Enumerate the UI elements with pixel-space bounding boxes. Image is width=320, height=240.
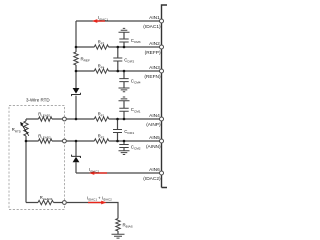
resistor RRTD (12, 119, 29, 141)
current arrow IIDAC1+IIDAC2 (87, 195, 112, 204)
capacitor CCM4 (119, 71, 140, 88)
wire top IDAC1 trace (76, 20, 160, 22)
resistor RREF (74, 52, 90, 65)
capacitor CDIF1 (113, 119, 134, 141)
resistor RBIAS (116, 219, 133, 235)
svg-text:AIN1: AIN1 (149, 15, 160, 21)
junction dots (25, 46, 126, 143)
ground above CCM1 (119, 97, 130, 101)
pin AIN2 (145, 41, 164, 56)
resistor RF2 (94, 134, 109, 144)
capacitor CDIF2 (113, 47, 134, 71)
svg-text:(AINN): (AINN) (146, 144, 161, 150)
current arrow IIDAC1 (92, 15, 108, 23)
ground above CCM3 (119, 28, 130, 32)
terminal lead2 (63, 139, 67, 143)
diode D1 (72, 88, 81, 96)
capacitor CCM1 (119, 101, 140, 119)
resistor RLEAD3 (38, 195, 53, 205)
wire bottom return to RBIAS (67, 203, 118, 219)
svg-text:AIN5: AIN5 (149, 135, 160, 141)
pin AIN1 (143, 15, 163, 30)
svg-text:(IDAC2): (IDAC2) (143, 176, 161, 182)
ground below RBIAS (112, 234, 125, 238)
terminal lead1 (63, 117, 67, 121)
pin AIN6 (143, 167, 163, 182)
diode D2 (72, 155, 81, 163)
wire vertical reference branch (75, 21, 77, 119)
svg-text:(AINP): (AINP) (146, 122, 161, 128)
svg-text:AIN3: AIN3 (149, 65, 160, 71)
capacitor CCM2 (119, 141, 140, 151)
ground below CCM2 (119, 151, 130, 155)
resistor RLEAD1 (26, 111, 62, 121)
svg-text:AIN4: AIN4 (149, 113, 160, 119)
svg-text:3-Wire RTD: 3-Wire RTD (26, 98, 50, 103)
ground below CCM4 (119, 88, 130, 92)
RTD dashed box (9, 106, 65, 210)
pin AIN4 (146, 113, 163, 128)
ADC device box (162, 5, 168, 188)
label 3-Wire RTD (26, 98, 50, 103)
wire IDAC2 branch (76, 141, 160, 173)
pin AIN3 (144, 65, 163, 80)
resistor RF1 (94, 112, 109, 122)
wire REFN line (76, 70, 160, 72)
wire RTD bottom branch (26, 141, 62, 203)
wire AINP line (67, 118, 160, 120)
resistor RLEAD2 (26, 133, 62, 143)
svg-text:(REFN): (REFN) (144, 74, 161, 80)
svg-text:AIN6: AIN6 (149, 167, 160, 173)
resistor RF3 (94, 40, 108, 50)
wire REFP line (76, 46, 160, 48)
terminal lead3 (63, 201, 67, 205)
resistor RF4 (94, 64, 108, 74)
svg-text:(REFP): (REFP) (145, 50, 161, 56)
svg-text:AIN2: AIN2 (149, 41, 160, 47)
current arrow IIDAC2 (89, 167, 107, 175)
capacitor CCM3 (119, 32, 140, 47)
svg-text:(IDAC1): (IDAC1) (143, 24, 161, 30)
pin AIN5 (146, 135, 164, 150)
wire AINN line (67, 140, 160, 142)
